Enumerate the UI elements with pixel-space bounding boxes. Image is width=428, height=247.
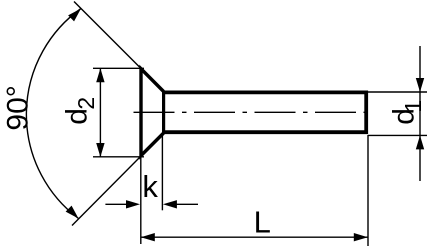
dimension line L [141,236,368,238]
svg-text:L: L [254,204,271,239]
dimension line d1 [419,46,421,181]
arrowhead L left [141,233,155,241]
arrowhead d1 top (pointing down) [416,78,424,92]
wire: centerline (dash-dot axis) [134,111,369,113]
arrowhead d2 top [96,68,104,82]
wire: 45deg extension line top (cone edge extended) [74,2,142,70]
dimension k right tail [176,203,198,205]
arrowhead k right [163,200,177,208]
extension line for d1 bottom [368,134,427,136]
arrowhead L right [354,233,368,241]
arrowhead d2 bottom [96,143,104,157]
90 degree dimension arc [26,9,81,219]
extension line for d2 bottom [93,156,144,158]
rivet head-shank junction edge [162,91,165,134]
arrowhead k left [126,200,140,208]
rivet shank outline [164,92,367,132]
rivet countersunk head outline [141,69,164,156]
arrowhead of arc, top [68,9,81,22]
extension line: cone-shank junction extended down (for k) [161,135,163,210]
arrowhead of arc, bottom [66,206,79,219]
extension line: shank end extended down (for L) [367,135,369,246]
extension line: head face extended down (for k and L) [140,156,142,244]
extension line for d2 top [93,67,144,69]
svg-text:90°: 90° [2,85,35,130]
dimension line d2 [99,68,101,157]
arrowhead d1 bottom (pointing up) [416,135,424,149]
extension line for d1 top [368,91,427,93]
dimension k left tail [105,203,127,205]
svg-text:k: k [142,169,158,204]
wire: 45deg extension line bottom (cone edge extended) [72,156,142,226]
